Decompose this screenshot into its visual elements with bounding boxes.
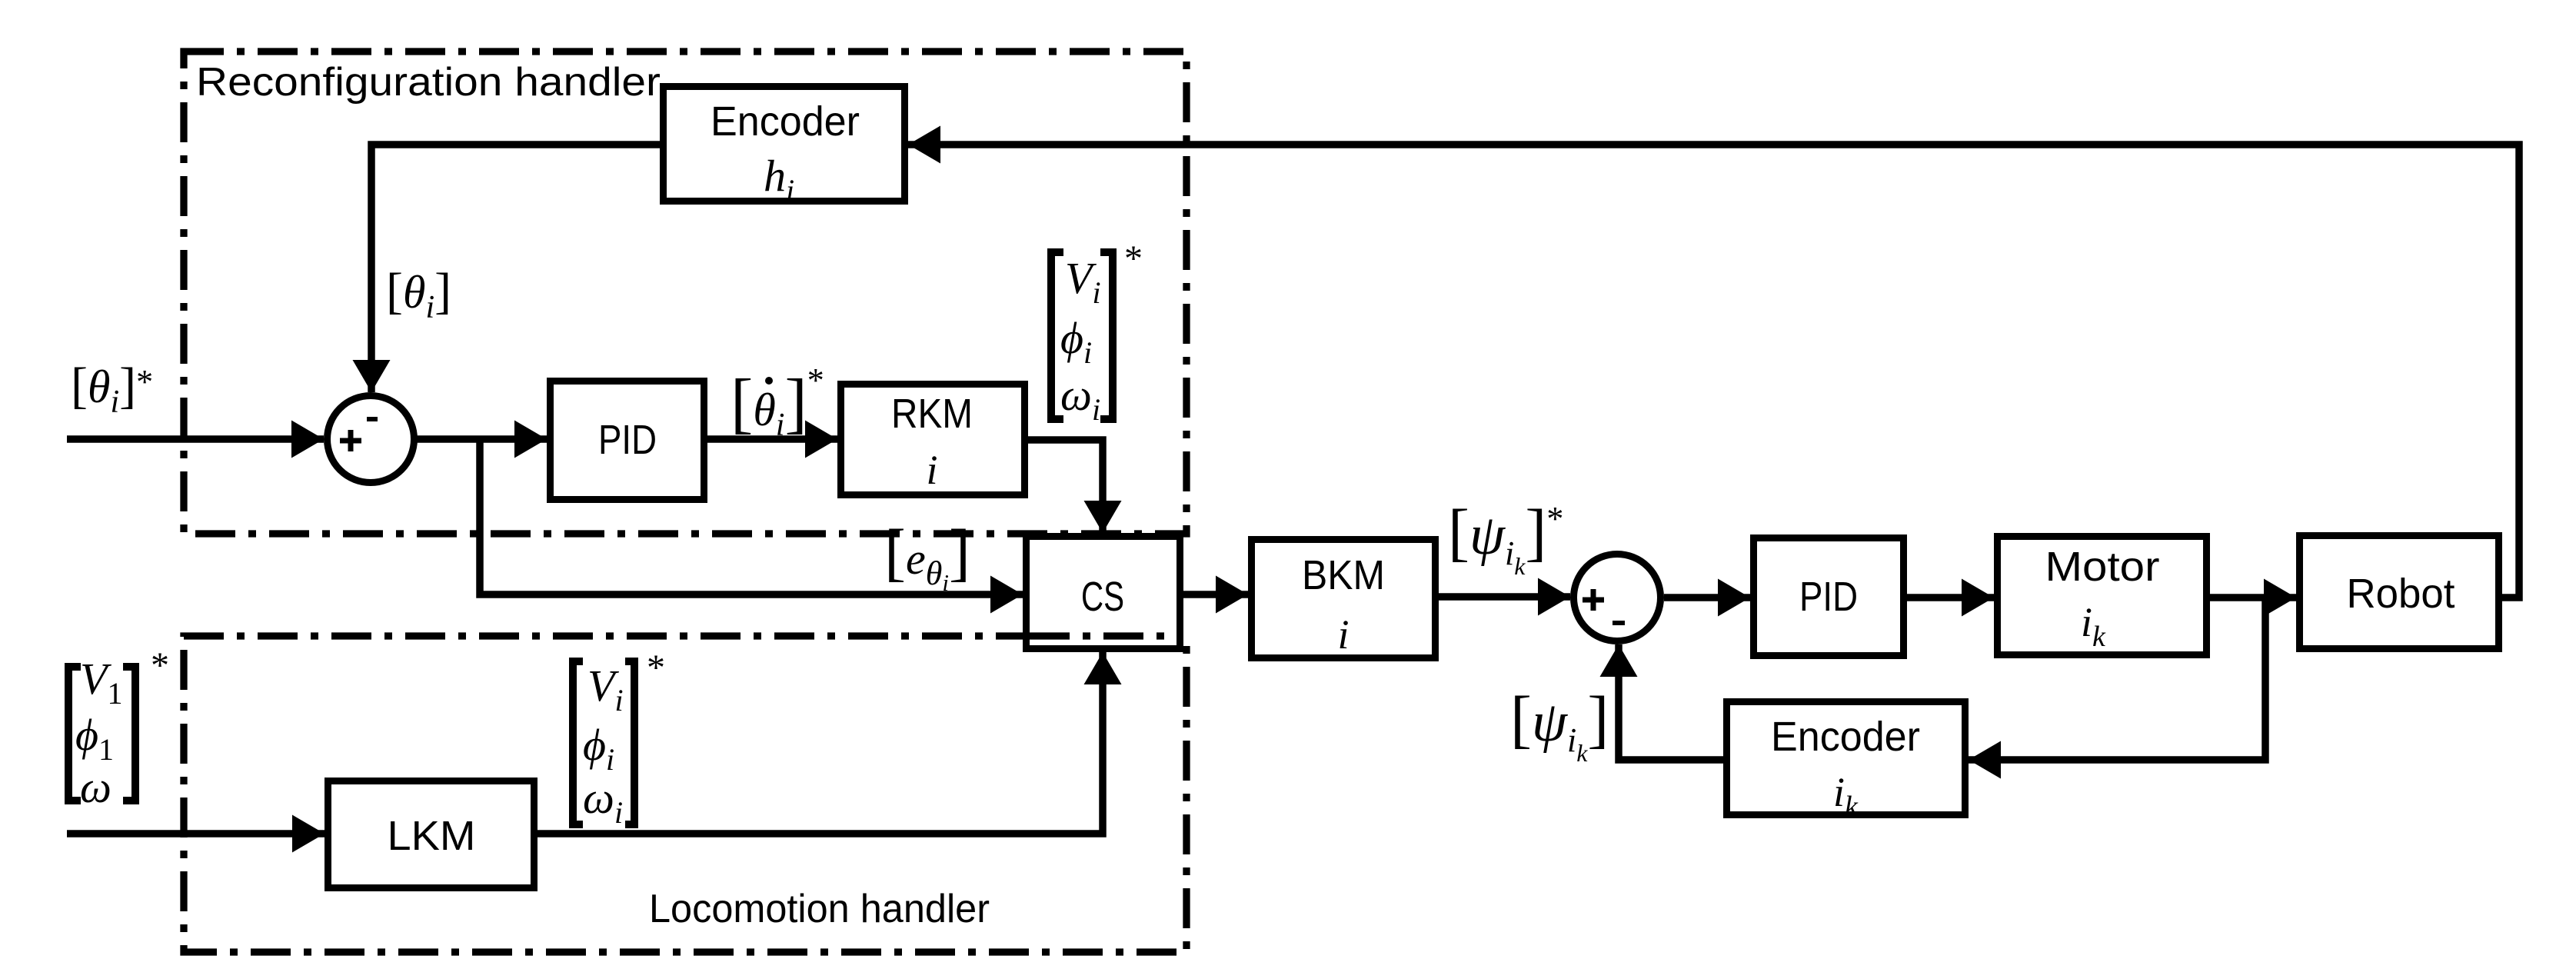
summing junction 1 xyxy=(328,396,414,483)
wire summing junction 2 to PID 2 xyxy=(1664,579,1750,617)
wire PID to RKM xyxy=(707,421,837,458)
svg-text:CS: CS xyxy=(1081,574,1124,620)
block Robot xyxy=(2300,536,2499,649)
wire BKM to summing junction 2 xyxy=(1439,578,1570,616)
wire LKM to CS bottom xyxy=(537,652,1122,834)
block BKM i xyxy=(1252,540,1436,658)
svg-text:*: * xyxy=(647,648,665,688)
wire PID 2 to Motor xyxy=(1907,579,1994,617)
svg-text:LKM: LKM xyxy=(388,813,476,859)
summing junction 2 xyxy=(1574,554,1661,641)
wire input theta* to summing junction 1 xyxy=(67,421,324,458)
svg-text:*: * xyxy=(151,645,169,686)
matrix label [Vi phii omegai]* after LKM xyxy=(573,648,665,830)
wire RKM to CS top xyxy=(1024,440,1122,533)
wire Encoder hi to summing junction 1 xyxy=(353,145,661,392)
dash-dot box Locomotion handler xyxy=(184,636,1186,952)
label [theta_i dot]* between PID and RKM xyxy=(731,361,824,443)
svg-text:Encoder: Encoder xyxy=(711,98,860,145)
svg-text:Motor: Motor xyxy=(2045,544,2160,590)
svg-text:i: i xyxy=(1337,611,1349,658)
matrix label [Vi phii omegai]* above CS xyxy=(1051,238,1143,427)
wire Robot feedback to Encoder hi xyxy=(908,126,2519,598)
svg-text:i: i xyxy=(926,447,937,493)
svg-text:*: * xyxy=(1124,238,1143,279)
block Encoder ik xyxy=(1727,702,1965,824)
block Motor ik xyxy=(1998,537,2207,655)
svg-text:Encoder: Encoder xyxy=(1771,714,1920,760)
block PID 2 xyxy=(1754,538,1904,656)
locomotion top dash-dot segment crossing CS xyxy=(1030,632,1180,639)
block PID 1 xyxy=(551,381,704,500)
svg-text:PID: PID xyxy=(1799,574,1858,620)
block RKM i xyxy=(841,385,1025,495)
wire CS to BKM xyxy=(1183,576,1248,614)
wire Encoder ik to summing junction 2 xyxy=(1600,644,1724,760)
wire Motor to Robot xyxy=(2210,579,2296,617)
block Encoder hi xyxy=(664,87,905,208)
svg-text:BKM: BKM xyxy=(1302,552,1385,598)
svg-text:RKM: RKM xyxy=(891,391,973,437)
wire Motor output branch down to Encoder ik xyxy=(1969,598,2265,779)
block LKM xyxy=(328,781,534,888)
svg-text:Robot: Robot xyxy=(2347,571,2455,617)
wire error branch e_theta to CS xyxy=(480,439,1023,614)
dash-dot box Reconfiguration handler xyxy=(184,52,1186,534)
wire input V1 to LKM xyxy=(67,815,324,853)
svg-text:[θi]: [θi] xyxy=(386,263,451,325)
svg-text:ω: ω xyxy=(80,762,111,812)
svg-text:PID: PID xyxy=(598,417,657,463)
wire summing junction 1 to PID xyxy=(414,421,547,458)
block CS xyxy=(1027,537,1180,649)
svg-text:Locomotion handler: Locomotion handler xyxy=(649,887,990,931)
svg-text:Reconfiguration handler: Reconfiguration handler xyxy=(196,60,661,105)
matrix label [V1 phi1 omega]* input xyxy=(68,645,169,812)
